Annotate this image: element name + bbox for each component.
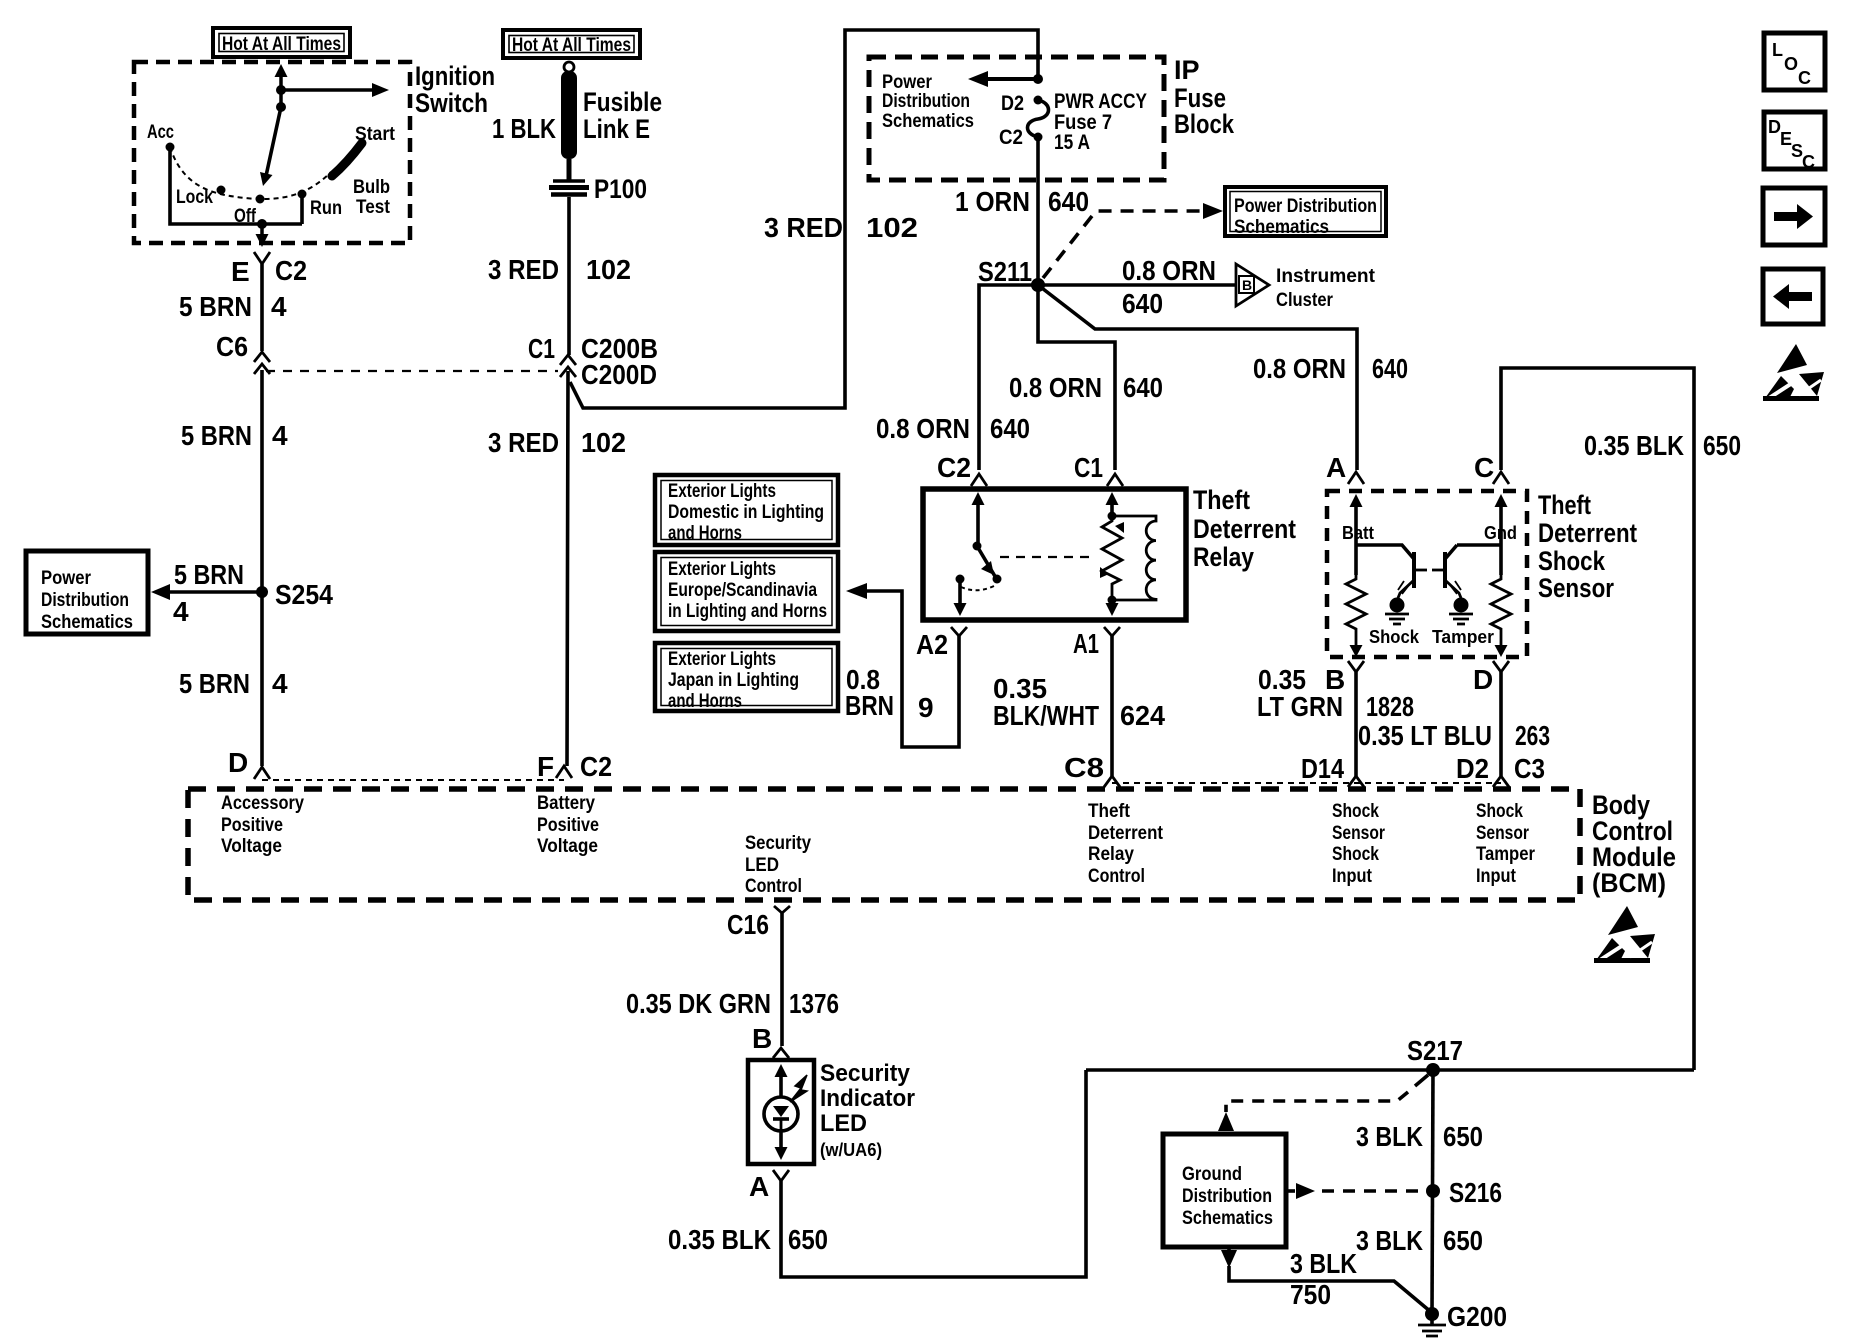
svg-text:Tamper: Tamper xyxy=(1432,627,1494,647)
svg-text:C1: C1 xyxy=(1074,452,1103,483)
svg-text:C2: C2 xyxy=(937,452,971,483)
wire: 3 BLK 650 S217 to S216 xyxy=(1432,1070,1433,1314)
svg-text:0.35 BLK: 0.35 BLK xyxy=(668,1224,771,1255)
reference box: Power Distribution Schematics (right) xyxy=(1225,187,1386,238)
svg-text:Control: Control xyxy=(1088,866,1145,887)
fine dashed connector line C8 to D2 xyxy=(1112,782,1501,784)
relay internal: C1 entry arrow up xyxy=(1106,492,1119,516)
svg-text:Theft: Theft xyxy=(1088,801,1131,822)
svg-text:C: C xyxy=(1802,152,1815,172)
shock sensor pin A connector chevron xyxy=(1326,452,1364,484)
BCM pin function: Shock Sensor Tamper Input xyxy=(1476,801,1536,887)
BCM pin function: Security LED Control xyxy=(745,833,811,897)
label box: Hot At All Times (left) xyxy=(213,28,350,57)
shock sensor pin B connector chevron xyxy=(1325,661,1364,695)
relay internal: NO contact xyxy=(956,575,965,584)
svg-text:Cluster: Cluster xyxy=(1276,290,1334,311)
svg-text:Tamper: Tamper xyxy=(1476,844,1536,865)
svg-text:Instrument: Instrument xyxy=(1276,266,1376,287)
shock sensor internal: Batt rail to transistor Q1 xyxy=(1356,545,1414,559)
svg-text:(w/UA6): (w/UA6) xyxy=(820,1140,882,1160)
node: wiper pivot junction xyxy=(276,102,286,112)
svg-text:Shock: Shock xyxy=(1538,546,1606,576)
LED D1: Security Indicator LED box xyxy=(748,1060,814,1164)
svg-text:3 RED: 3 RED xyxy=(488,427,559,458)
svg-text:Schematics: Schematics xyxy=(41,612,133,633)
svg-text:(BCM): (BCM) xyxy=(1592,868,1666,898)
svg-text:LED: LED xyxy=(820,1110,867,1137)
svg-text:1828: 1828 xyxy=(1366,691,1414,722)
reference text Power Distribution Schematics (inside fuse block) xyxy=(882,72,974,132)
svg-text:Voltage: Voltage xyxy=(221,836,282,857)
ignition switch dashed box xyxy=(134,62,410,243)
svg-text:650: 650 xyxy=(788,1224,828,1255)
svg-text:O: O xyxy=(1784,54,1798,74)
svg-text:750: 750 xyxy=(1290,1279,1331,1310)
relay internal: mechanical link (dashed) xyxy=(1000,556,1096,558)
relay pin C2 connector chevron xyxy=(937,452,987,486)
LED internal: exit arrow down xyxy=(775,1131,788,1160)
svg-text:C3: C3 xyxy=(1514,753,1545,784)
svg-text:3 BLK: 3 BLK xyxy=(1290,1248,1357,1279)
svg-text:Schematics: Schematics xyxy=(1234,217,1329,238)
wire: 0.35 BLK 650 from LED A to ground rail xyxy=(781,1070,1086,1277)
svg-text:Positive: Positive xyxy=(221,815,283,836)
svg-text:Shock: Shock xyxy=(1332,801,1379,822)
svg-text:640: 640 xyxy=(1123,372,1163,403)
svg-text:Input: Input xyxy=(1476,866,1517,887)
reference box: Exterior Lights Domestic xyxy=(655,475,838,545)
label box: Hot At All Times (right) xyxy=(503,30,640,58)
svg-text:C2: C2 xyxy=(580,751,612,782)
node: splice S254 xyxy=(256,586,268,598)
LED pin B connector chevron xyxy=(752,1023,789,1058)
svg-text:Batt: Batt xyxy=(1342,523,1374,543)
svg-text:PWR ACCY: PWR ACCY xyxy=(1054,90,1147,113)
svg-text:Security: Security xyxy=(820,1060,911,1087)
icon: back arrow box xyxy=(1763,269,1823,324)
svg-text:F: F xyxy=(537,751,554,782)
reference box: Power Distribution Schematics (left) xyxy=(26,551,148,634)
shock sensor dashed box xyxy=(1327,491,1527,657)
svg-text:and Horns: and Horns xyxy=(668,691,742,712)
shock sensor internal: left resistor xyxy=(1346,575,1366,648)
svg-text:G200: G200 xyxy=(1447,1301,1507,1332)
node: coil top junction xyxy=(1108,512,1117,521)
svg-text:Ignition: Ignition xyxy=(415,61,495,91)
svg-text:Bulb: Bulb xyxy=(353,177,390,198)
component name Security Indicator LED (w/UA6) xyxy=(820,1060,915,1160)
svg-text:Power: Power xyxy=(882,72,933,93)
wire: 5 BRN from S254 down to BCM pin D xyxy=(260,592,264,766)
svg-text:15 A: 15 A xyxy=(1054,131,1090,154)
svg-text:Link E: Link E xyxy=(583,114,650,144)
svg-text:4: 4 xyxy=(272,668,288,699)
shock sensor internal: D exit arrow down xyxy=(1495,645,1508,657)
svg-text:LED: LED xyxy=(745,855,779,876)
ground G200 xyxy=(1418,1301,1507,1336)
svg-text:Block: Block xyxy=(1174,109,1235,139)
svg-text:0.8 ORN: 0.8 ORN xyxy=(876,413,970,444)
svg-text:Hot At All Times: Hot At All Times xyxy=(512,35,631,56)
wire: switch output exits box with down arrow xyxy=(256,224,269,247)
component name IP Fuse Block xyxy=(1174,55,1235,139)
fusible link E top terminal circle xyxy=(564,62,574,72)
svg-text:Domestic in Lighting: Domestic in Lighting xyxy=(668,502,824,523)
svg-text:3 RED: 3 RED xyxy=(488,254,559,285)
svg-text:Gnd: Gnd xyxy=(1484,523,1517,543)
relay internal: switch common pivot xyxy=(973,542,982,551)
svg-text:D2: D2 xyxy=(1456,753,1489,784)
svg-text:102: 102 xyxy=(586,254,631,285)
svg-text:Battery: Battery xyxy=(537,793,595,814)
pin D14 of BCM xyxy=(1301,753,1364,787)
svg-text:B: B xyxy=(1242,277,1252,293)
svg-text:Exterior Lights: Exterior Lights xyxy=(668,649,776,670)
component name Theft Deterrent Shock Sensor xyxy=(1538,490,1637,603)
node: splice S217 xyxy=(1426,1063,1440,1077)
svg-text:Switch: Switch xyxy=(415,88,488,118)
svg-text:Relay: Relay xyxy=(1193,542,1254,572)
svg-text:Exterior Lights: Exterior Lights xyxy=(668,559,776,580)
svg-text:C2: C2 xyxy=(999,126,1023,149)
svg-text:0.35 LT BLU: 0.35 LT BLU xyxy=(1358,720,1492,751)
svg-text:5 BRN: 5 BRN xyxy=(181,420,252,451)
ground (tamper) xyxy=(1432,598,1494,648)
svg-text:BRN: BRN xyxy=(845,690,894,721)
svg-text:0.35 DK GRN: 0.35 DK GRN xyxy=(626,988,771,1019)
svg-text:1 BLK: 1 BLK xyxy=(492,113,556,144)
LED pin A connector chevron xyxy=(749,1170,789,1202)
svg-text:C2: C2 xyxy=(275,255,307,286)
svg-text:P100: P100 xyxy=(594,174,647,204)
svg-text:Power: Power xyxy=(41,568,92,589)
svg-text:D2: D2 xyxy=(1001,92,1024,115)
pin C16 of BCM (bottom) xyxy=(727,906,790,940)
connector C1 C200B / C200D xyxy=(528,333,658,390)
svg-text:Control: Control xyxy=(745,876,802,897)
svg-text:263: 263 xyxy=(1515,720,1550,751)
svg-text:A: A xyxy=(1326,452,1346,483)
wire: arrow to right (ignition feed) xyxy=(281,83,389,97)
wire: 0.8 BRN 9 from relay A2 to Europe/Scandinavia box (arrow) xyxy=(846,583,959,747)
component name Theft Deterrent Relay xyxy=(1193,485,1296,572)
wire: 0.35 BLK 650 from shock sensor C up and over to ground rail xyxy=(1501,368,1694,1070)
svg-text:0.35 BLK: 0.35 BLK xyxy=(1584,430,1684,461)
relay pin A1 connector chevron xyxy=(1073,627,1120,659)
contact: Start / Bulb Test thick arc xyxy=(332,143,362,176)
svg-text:Test: Test xyxy=(356,197,391,218)
pin D2 / C3 of BCM xyxy=(1456,753,1545,787)
svg-text:S254: S254 xyxy=(275,579,333,610)
svg-text:Run: Run xyxy=(310,198,342,219)
rotary contact arc (dashed) xyxy=(170,147,331,199)
svg-text:Distribution: Distribution xyxy=(1182,1186,1272,1207)
svg-text:C200D: C200D xyxy=(581,359,657,390)
LED internal: emission flash arrow xyxy=(790,1075,807,1102)
svg-text:S217: S217 xyxy=(1407,1035,1463,1066)
node: coil bottom junction xyxy=(1108,596,1117,605)
icon: LOC box xyxy=(1764,33,1825,90)
IP fuse block dashed box xyxy=(869,57,1164,180)
shock sensor internal: A entry arrow up (Batt) xyxy=(1342,494,1374,575)
svg-text:LT GRN: LT GRN xyxy=(1257,691,1343,722)
wire: 0.8 ORN 640 from S211 down-right to relay pin C1 xyxy=(1038,285,1115,470)
BCM dashed box xyxy=(188,789,1580,900)
shock sensor internal: C entry arrow up (Gnd) xyxy=(1484,494,1517,575)
svg-text:Deterrent: Deterrent xyxy=(1088,823,1164,844)
wire: branch from C200D to IP fuse block (3 RED 102) xyxy=(570,30,1038,408)
svg-text:Acc: Acc xyxy=(147,122,174,143)
LED internal: diode circle symbol xyxy=(764,1097,798,1131)
wire: 5 BRN from C6 down to S254 xyxy=(260,370,264,592)
fusible link E body xyxy=(561,71,577,180)
svg-text:4: 4 xyxy=(271,291,287,322)
LED internal: entry arrow up xyxy=(775,1064,788,1097)
connector C6 (inline, double chevron) xyxy=(216,331,270,374)
svg-text:Lock: Lock xyxy=(176,187,213,208)
BCM pin function: Shock Sensor Shock Input xyxy=(1332,801,1385,887)
svg-text:IP: IP xyxy=(1174,55,1200,85)
svg-text:Schematics: Schematics xyxy=(882,111,974,132)
wire: 0.35 LT BLU 263 from D to BCM D2 xyxy=(1499,672,1503,776)
svg-text:1376: 1376 xyxy=(789,988,839,1019)
relay internal: contact to A2 with down arrow xyxy=(954,579,967,616)
ground (shock) xyxy=(1369,598,1420,648)
wire: 0.35 BLK/WHT 624 from relay A1 to BCM C8 xyxy=(1110,636,1114,776)
wire: 3 BLK 750 from Ground Distribution box to G200 (down arrow) xyxy=(1221,1247,1431,1312)
icon: ESD sensitivity symbol (margin) xyxy=(1763,344,1824,401)
svg-text:102: 102 xyxy=(866,212,918,243)
shock sensor pin D connector chevron xyxy=(1473,661,1509,695)
svg-text:A2: A2 xyxy=(916,629,948,660)
svg-text:3 RED: 3 RED xyxy=(764,212,843,243)
wire: 0.8 ORN 640 from S211 left-down to relay pin C2 xyxy=(979,285,1038,470)
transistor Q1 (shock) xyxy=(1398,552,1427,598)
svg-text:L: L xyxy=(1772,40,1783,60)
svg-text:Shock: Shock xyxy=(1369,627,1420,647)
wire: 5 BRN from E down to C6 xyxy=(260,264,264,351)
svg-text:C: C xyxy=(1474,452,1494,483)
BCM pin function: Battery Positive Voltage xyxy=(537,793,599,857)
svg-text:D: D xyxy=(228,747,248,778)
svg-text:650: 650 xyxy=(1703,430,1741,461)
svg-text:Power Distribution: Power Distribution xyxy=(1234,196,1377,217)
pin D of BCM xyxy=(228,747,270,779)
svg-text:4: 4 xyxy=(272,420,288,451)
svg-text:BLK/WHT: BLK/WHT xyxy=(993,700,1099,731)
relay internal: travel arc (dashed) xyxy=(961,586,994,590)
svg-text:D: D xyxy=(1473,664,1493,695)
grommet P100 xyxy=(549,174,647,204)
svg-text:Voltage: Voltage xyxy=(537,836,598,857)
svg-text:3 BLK: 3 BLK xyxy=(1356,1225,1423,1256)
svg-text:Distribution: Distribution xyxy=(41,590,129,611)
svg-text:Europe/Scandinavia: Europe/Scandinavia xyxy=(668,580,817,601)
svg-text:C6: C6 xyxy=(216,331,248,362)
svg-text:S211: S211 xyxy=(978,256,1032,287)
reference box: Exterior Lights Japan xyxy=(655,643,838,712)
svg-text:Distribution: Distribution xyxy=(882,91,970,112)
shock sensor internal: right resistor xyxy=(1491,575,1511,648)
wire: 1 ORN 640 from fuse to S211 xyxy=(1036,137,1040,285)
wire: ground rail to S217 xyxy=(1086,1068,1694,1072)
node: splice S216 xyxy=(1426,1184,1440,1198)
switch wiper arm pointing at Off xyxy=(260,107,281,186)
relay internal: coil winding xyxy=(1112,516,1156,600)
BCM pin function: Theft Deterrent Relay Control xyxy=(1088,801,1164,887)
dashed reference wire from S211 to Power Distribution Schematics box xyxy=(1043,203,1223,278)
ESD sensitivity symbol (BCM) xyxy=(1594,906,1655,963)
ignition switch name label xyxy=(415,61,495,118)
svg-text:and Horns: and Horns xyxy=(668,523,742,544)
svg-text:Sensor: Sensor xyxy=(1538,573,1614,603)
svg-text:640: 640 xyxy=(1372,353,1408,384)
svg-text:C8: C8 xyxy=(1064,752,1104,783)
wire: 5 BRN branch arrow from S254 to Power Distribution box xyxy=(151,559,262,627)
relay internal: A1 exit arrow down xyxy=(1106,600,1119,616)
node: ignition feed junction (to B+) xyxy=(276,85,286,95)
svg-text:Shock: Shock xyxy=(1476,801,1523,822)
relay pin A2 connector chevron xyxy=(916,627,967,660)
svg-text:Theft: Theft xyxy=(1538,490,1591,520)
svg-text:S216: S216 xyxy=(1449,1177,1502,1208)
svg-text:Sensor: Sensor xyxy=(1476,823,1529,844)
instrument cluster triangle with pin B xyxy=(1236,264,1376,311)
svg-text:4: 4 xyxy=(173,596,189,627)
wire: 0.35 LT GRN 1828 from B to BCM D14 xyxy=(1354,672,1358,776)
svg-text:Security: Security xyxy=(745,833,811,854)
fine dashed connector line D to F xyxy=(262,779,564,781)
svg-text:640: 640 xyxy=(990,413,1030,444)
contact: Run xyxy=(298,190,307,199)
svg-text:Sensor: Sensor xyxy=(1332,823,1385,844)
dashed wire C6 to C200 connector xyxy=(266,370,558,372)
svg-text:Shock: Shock xyxy=(1332,844,1379,865)
label Fusible Link E xyxy=(583,87,662,144)
relay internal: switch arm xyxy=(977,546,1002,584)
svg-text:Deterrent: Deterrent xyxy=(1538,518,1637,548)
svg-text:5 BRN: 5 BRN xyxy=(179,291,252,322)
component name Body Control Module (BCM) xyxy=(1592,790,1676,898)
svg-text:650: 650 xyxy=(1443,1225,1483,1256)
wire: 0.35 DK GRN 1376 from C16 to LED pin B xyxy=(780,913,784,1046)
svg-text:B: B xyxy=(752,1023,772,1054)
shock sensor internal: B exit arrow down xyxy=(1350,645,1363,657)
svg-text:Fusible: Fusible xyxy=(583,87,662,117)
relay U: Theft Deterrent Relay box xyxy=(923,489,1186,620)
node: fuse feed junction xyxy=(1033,74,1043,84)
svg-text:624: 624 xyxy=(1120,700,1165,731)
svg-text:D14: D14 xyxy=(1301,753,1344,784)
svg-text:5 BRN: 5 BRN xyxy=(179,668,250,699)
svg-text:0.8 ORN: 0.8 ORN xyxy=(1122,255,1216,286)
svg-text:Ground: Ground xyxy=(1182,1164,1242,1185)
svg-text:A1: A1 xyxy=(1073,628,1099,659)
wire: 0.8 ORN 640 from S211 to instrument cluster xyxy=(1038,283,1236,287)
wire: arrow left from fuse feed node xyxy=(968,71,1038,87)
svg-text:102: 102 xyxy=(581,427,626,458)
pin E connector chevron xyxy=(254,252,270,264)
pin F / C2 of BCM xyxy=(537,751,612,782)
svg-text:Theft: Theft xyxy=(1193,485,1250,515)
wire: 3 RED from P100 down to C200 xyxy=(567,197,569,766)
svg-text:C: C xyxy=(1798,68,1811,88)
svg-text:9: 9 xyxy=(918,692,934,723)
dashed reference wire from S217 to Ground Distribution Schematics (up arrow) xyxy=(1218,1075,1428,1131)
wire: 0.8 ORN 640 from S211 diagonal to shock sensor pin A xyxy=(1038,285,1357,470)
contact: Acc xyxy=(166,143,175,152)
reference box: Ground Distribution Schematics xyxy=(1163,1134,1286,1247)
transistor Q2 (tamper) xyxy=(1432,545,1461,598)
svg-text:Input: Input xyxy=(1332,866,1373,887)
svg-text:0.8 ORN: 0.8 ORN xyxy=(1009,372,1102,403)
svg-text:1 ORN: 1 ORN xyxy=(955,186,1030,217)
svg-text:5 BRN: 5 BRN xyxy=(174,559,244,590)
svg-text:C1: C1 xyxy=(528,333,555,364)
svg-text:Relay: Relay xyxy=(1088,844,1134,865)
svg-text:in Lighting and Horns: in Lighting and Horns xyxy=(668,601,827,622)
svg-text:Start: Start xyxy=(355,124,396,145)
contact: Off xyxy=(256,195,265,204)
icon: DESC box xyxy=(1764,112,1825,172)
relay internal: coil resistance zigzag xyxy=(1102,516,1122,600)
reference box: Exterior Lights Europe/Scandinavia xyxy=(655,552,838,631)
svg-text:Hot At All Times: Hot At All Times xyxy=(222,34,341,55)
svg-text:Japan in Lighting: Japan in Lighting xyxy=(668,670,799,691)
relay internal: C2 entry arrow up xyxy=(972,492,985,546)
svg-text:650: 650 xyxy=(1443,1121,1483,1152)
svg-text:Schematics: Schematics xyxy=(1182,1208,1273,1229)
pin C8 of BCM xyxy=(1064,752,1120,787)
icon: forward arrow box xyxy=(1763,188,1825,245)
svg-text:C16: C16 xyxy=(727,909,769,940)
node: splice S211 xyxy=(1031,278,1045,292)
svg-text:640: 640 xyxy=(1122,288,1163,319)
svg-text:0.8 ORN: 0.8 ORN xyxy=(1253,353,1346,384)
BCM pin function: Accessory Positive Voltage xyxy=(221,793,304,857)
contact: Lock xyxy=(217,186,226,195)
wire: battery feed into ignition switch with up arrow xyxy=(275,64,288,108)
svg-text:Indicator: Indicator xyxy=(820,1085,915,1112)
svg-text:Accessory: Accessory xyxy=(221,793,304,814)
dashed reference wire from Ground Distribution box to S216 (right arrow) xyxy=(1286,1183,1424,1199)
svg-text:E: E xyxy=(231,256,250,287)
wire: Acc contact down to common rail xyxy=(170,147,302,224)
node: switch output junction xyxy=(257,219,267,229)
svg-text:640: 640 xyxy=(1048,186,1089,217)
svg-text:3 BLK: 3 BLK xyxy=(1356,1121,1423,1152)
svg-text:Deterrent: Deterrent xyxy=(1193,514,1296,544)
svg-text:A: A xyxy=(749,1171,769,1202)
relay pin C1 connector chevron xyxy=(1074,452,1123,486)
shock sensor internal: Gnd rail to Q2 xyxy=(1457,543,1501,547)
svg-text:Positive: Positive xyxy=(537,815,599,836)
svg-text:Exterior Lights: Exterior Lights xyxy=(668,481,776,502)
fuse PWR ACCY Fuse 7 15A xyxy=(999,90,1147,154)
shock sensor pin C connector chevron xyxy=(1474,452,1509,484)
